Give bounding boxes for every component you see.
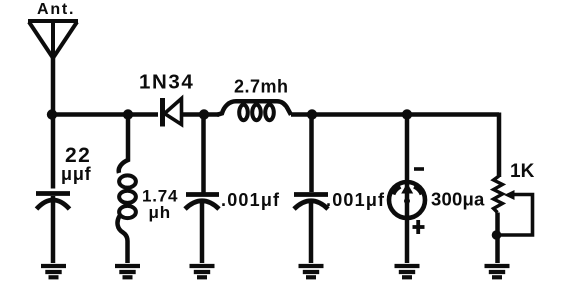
inductor L1 1.74uh wire top <box>119 114 128 173</box>
svg-text:1K: 1K <box>510 161 535 182</box>
wire antenna to node A <box>51 56 56 115</box>
svg-text:1N34: 1N34 <box>139 71 194 94</box>
wire C1 to ground <box>51 196 56 263</box>
node B junction dot <box>123 109 133 119</box>
meter M1 arrow head <box>401 183 413 194</box>
node F junction dot <box>492 230 502 240</box>
wire diode to node C <box>182 112 219 117</box>
inductor L2 2.7mh label <box>234 77 289 97</box>
meter M1 pivot dot <box>404 198 410 204</box>
meter M1 value label 300ua <box>431 189 485 210</box>
ground G6 <box>485 266 510 277</box>
inductor L1 1.74uh loops <box>119 175 136 218</box>
capacitor C1 value label 22 uuf <box>61 144 92 184</box>
wire wiper to bottom junction <box>497 195 533 236</box>
svg-text:.001μf: .001μf <box>221 190 280 210</box>
capacitor C2 plates <box>185 195 219 210</box>
wire right corner down to potentiometer <box>497 113 502 178</box>
wire node B to diode <box>128 112 158 117</box>
ground G2 <box>115 266 140 277</box>
meter M1 arc wings <box>394 187 401 195</box>
antenna ANT label <box>37 1 75 18</box>
capacitor C3 .001uf wire <box>309 114 314 192</box>
node D junction dot <box>307 109 317 119</box>
wire L2 to right corner <box>291 112 499 117</box>
capacitor C3 plates <box>294 195 328 210</box>
ground G4 <box>299 266 324 277</box>
capacitor C1 22uuf wire <box>51 114 56 189</box>
wire C3 to ground <box>309 199 314 263</box>
diode D1 cathode bar <box>160 98 165 127</box>
diode D1 triangle <box>165 99 182 125</box>
diode D1 1N34 label <box>139 71 194 94</box>
wire R1 bottom <box>495 213 500 264</box>
inductor L2 loops <box>239 105 274 120</box>
node C junction dot <box>199 109 209 119</box>
ground G3 <box>190 266 215 277</box>
potentiometer R1 1K label <box>510 161 535 182</box>
node E junction dot <box>402 109 412 119</box>
capacitor C3 value label <box>326 190 385 210</box>
potentiometer R1 zigzag <box>494 176 503 213</box>
svg-text:Ant.: Ant. <box>37 1 75 18</box>
capacitor C1 22uuf plates <box>36 194 70 210</box>
potentiometer R1 wiper arrow <box>504 190 515 200</box>
svg-text:300μa: 300μa <box>431 189 485 210</box>
meter M1 wire through <box>405 114 410 263</box>
meter M1 circle <box>389 182 425 218</box>
ground G1 <box>41 266 66 277</box>
node A junction dot <box>47 109 57 119</box>
wire L1 to ground <box>117 216 127 263</box>
svg-text:.001μf: .001μf <box>326 190 385 210</box>
meter M1 minus sign <box>414 167 424 171</box>
capacitor C2 .001uf wire <box>201 114 206 193</box>
capacitor C2 value label <box>221 190 280 210</box>
inductor L2 top line <box>217 101 291 115</box>
svg-text:2.7mh: 2.7mh <box>234 77 289 97</box>
wire C2 to ground <box>200 199 205 263</box>
inductor L1 value label 1.74 uh <box>142 187 178 223</box>
svg-text:μh: μh <box>149 203 171 222</box>
antenna symbol <box>28 21 78 58</box>
meter M1 plus sign <box>413 220 425 234</box>
svg-text:μμf: μμf <box>61 164 92 184</box>
ground G5 <box>395 266 420 277</box>
wire node A to node B <box>52 112 128 117</box>
